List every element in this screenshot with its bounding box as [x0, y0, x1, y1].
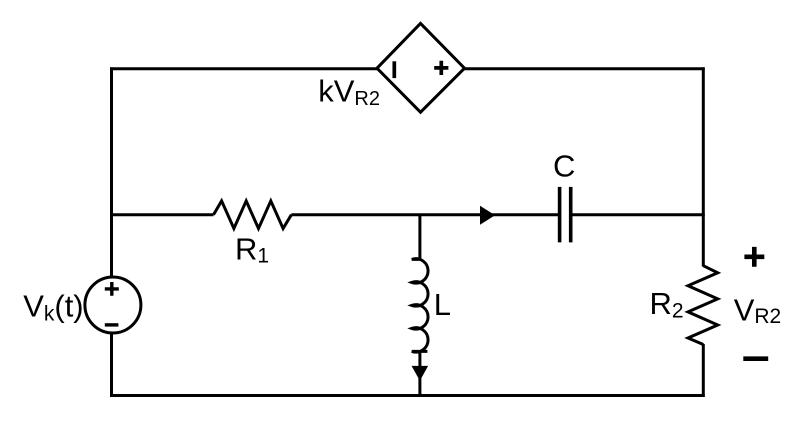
resistor R2 (vertical zigzag)	[688, 266, 718, 345]
polarity minus sign for VR2	[743, 356, 768, 361]
inductor current arrow (pointing down)	[412, 366, 427, 379]
wire: right rail bottom (from R2 to bottom rail)	[702, 344, 705, 397]
wire: right rail top (from top rail to R2)	[702, 67, 705, 266]
wire: inductor bottom stem to bottom rail	[418, 352, 421, 396]
polarity plus sign for VR2	[744, 247, 764, 267]
dependent source plus sign	[434, 61, 448, 75]
svg-text:Vk(t): Vk(t)	[23, 289, 83, 326]
wire: left rail bottom (from source circle to bottom rail)	[110, 333, 113, 397]
wire: top rail left segment	[110, 67, 378, 70]
wire: bottom rail	[110, 394, 705, 397]
voltage source minus sign	[105, 323, 119, 326]
wire: middle wire left segment (left rail to R1)	[110, 213, 213, 216]
inductor L (coil of 4 loops with bottom tick)	[412, 259, 428, 352]
current arrow on middle wire (pointing right)	[481, 207, 495, 224]
wire: left rail top (from top rail to source circle)	[110, 67, 113, 277]
wire: inductor top stem from middle wire node	[418, 215, 421, 260]
wire: middle wire right segment (capacitor to right rail)	[571, 213, 705, 216]
svg-text:C: C	[553, 149, 575, 184]
resistor R1 (horizontal zigzag)	[214, 201, 292, 229]
capacitor C (two vertical plates)	[560, 187, 571, 243]
dependent source U1 (diamond)	[377, 23, 465, 112]
voltage source plus sign	[105, 282, 119, 296]
svg-text:L: L	[434, 287, 451, 322]
dependent source minus bar (vertical)	[392, 61, 396, 78]
voltage source Vk(t) (circle)	[85, 277, 141, 333]
wire: top rail right segment	[464, 67, 705, 70]
wire: middle wire center segment (R1 to capacitor)	[291, 213, 559, 216]
